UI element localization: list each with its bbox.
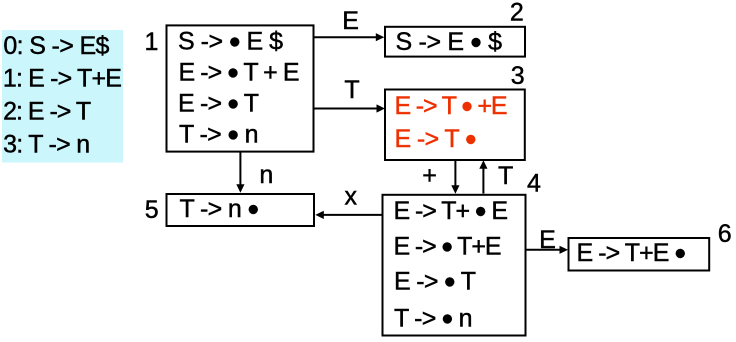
svg-text:T: T xyxy=(344,76,359,104)
svg-text:6: 6 xyxy=(718,220,732,248)
svg-text:E -> T+ • E: E -> T+ • E xyxy=(394,193,509,230)
svg-text:E -> T •: E -> T • xyxy=(395,121,477,158)
svg-text:E -> • T + E: E -> • T + E xyxy=(179,54,300,91)
svg-text:E -> • T: E -> • T xyxy=(178,85,259,122)
svg-text:5: 5 xyxy=(145,196,159,224)
svg-text:E -> T+E •: E -> T+E • xyxy=(577,235,687,272)
svg-text:3: T -> n: 3: T -> n xyxy=(3,131,90,159)
svg-text:E: E xyxy=(342,7,359,35)
svg-text:2: E -> T: 2: E -> T xyxy=(3,98,91,126)
svg-text:T -> n •: T -> n • xyxy=(180,191,260,228)
svg-text:x: x xyxy=(344,183,357,211)
svg-text:E -> • T: E -> • T xyxy=(394,263,476,300)
svg-text:E -> • T+E: E -> • T+E xyxy=(394,228,502,265)
svg-text:3: 3 xyxy=(511,62,525,90)
svg-text:+: + xyxy=(422,162,437,190)
svg-text:1: E -> T+E: 1: E -> T+E xyxy=(3,65,122,93)
svg-text:S -> E • $: S -> E • $ xyxy=(396,24,503,61)
svg-text:1: 1 xyxy=(144,28,158,56)
svg-text:T -> • n: T -> • n xyxy=(179,116,259,153)
svg-text:T: T xyxy=(498,162,513,190)
svg-text:2: 2 xyxy=(510,0,524,27)
svg-text:E -> T • +E: E -> T • +E xyxy=(395,88,508,125)
svg-text:4: 4 xyxy=(527,170,541,198)
svg-text:n: n xyxy=(259,161,273,189)
svg-text:0: S -> E$: 0: S -> E$ xyxy=(3,32,109,60)
svg-text:T -> • n: T -> • n xyxy=(394,300,473,337)
